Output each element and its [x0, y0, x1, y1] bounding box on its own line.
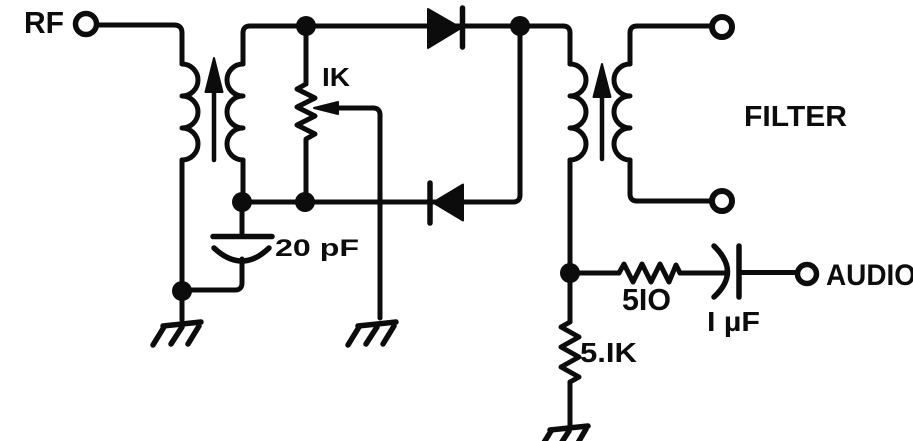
transformer T1 core arrow [206, 58, 223, 160]
svg-text:20 pF: 20 pF [275, 235, 359, 262]
transformer T2 secondary winding [614, 64, 630, 160]
node junction top-left [296, 16, 316, 36]
terminal FILTER bottom [712, 191, 732, 211]
transformer T1 primary winding [182, 64, 198, 160]
svg-text:I µF: I µF [707, 306, 760, 337]
terminal RF [76, 14, 97, 35]
potentiometer R1 1K resistive element [297, 84, 315, 202]
wire T2 secondary bottom to filter terminal [630, 160, 710, 201]
wire resistor 510 to capacitor C2 [680, 271, 726, 276]
svg-text:IK: IK [322, 62, 350, 92]
terminal AUDIO [798, 265, 817, 284]
wire RF input to T1 primary top [97, 25, 182, 64]
wire T1 primary bottom to node A [180, 160, 185, 291]
wire T2 primary bottom to node B [568, 160, 573, 273]
ground G3 [540, 426, 588, 441]
ground G1 [153, 322, 201, 345]
wire resistor 5.1K to ground [568, 382, 573, 427]
svg-text:5.IK: 5.IK [580, 337, 637, 368]
svg-text:AUDIO: AUDIO [826, 259, 913, 292]
wire capacitor C2 to audio terminal [741, 270, 795, 275]
wire node B to resistor 5.1K [568, 273, 573, 322]
node junction top-right [510, 16, 530, 36]
diode D1 [428, 8, 463, 48]
transformer T1 secondary winding [227, 64, 243, 160]
svg-text:5IO: 5IO [622, 282, 671, 317]
terminal FILTER top [712, 17, 732, 37]
ground G2 (pot wiper) [348, 322, 396, 345]
svg-text:RF: RF [24, 5, 64, 40]
wire pot top feed [304, 26, 309, 84]
wire top rail: T1 secondary top to T2 primary top [243, 26, 570, 64]
svg-text:FILTER: FILTER [744, 101, 847, 133]
capacitor C1 curved plate [214, 248, 269, 261]
wire node B to resistor 510 [570, 271, 619, 276]
node A junction [172, 281, 192, 301]
capacitor C2 right plate [736, 246, 742, 297]
resistor R2 510 [619, 264, 680, 282]
capacitor C1 top lead [240, 202, 245, 234]
capacitor C1 bottom lead to node A [182, 259, 242, 290]
diode D2 [430, 183, 463, 223]
wire node A to ground [180, 291, 185, 320]
wire T2 secondary top to filter terminal [630, 26, 711, 64]
transformer T2 core arrow [594, 64, 611, 159]
node junction bottom rail left [232, 192, 252, 212]
capacitor C1 top plate [213, 234, 272, 240]
wire T1 secondary bottom to bottom rail to top-right node [243, 27, 520, 202]
potentiometer R1 wiper arrow [314, 102, 380, 318]
transformer T2 primary winding [570, 64, 586, 160]
node junction pot bottom [295, 192, 315, 212]
capacitor C2 curved plate [714, 246, 728, 297]
resistor R3 5.1K [561, 322, 579, 382]
node B junction [560, 263, 580, 283]
